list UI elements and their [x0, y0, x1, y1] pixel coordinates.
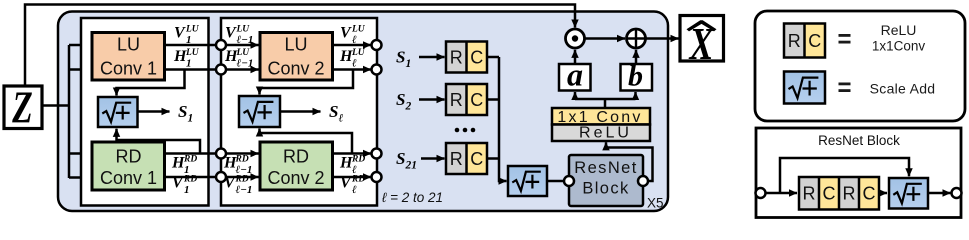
svg-text:C: C	[823, 184, 836, 204]
svg-text:S: S	[329, 102, 338, 121]
svg-text:1: 1	[184, 184, 190, 196]
svg-text:Z: Z	[11, 81, 32, 132]
svg-text:ℓ = 2 to 21: ℓ = 2 to 21	[382, 190, 443, 205]
svg-text:S: S	[396, 48, 405, 67]
svg-text:Scale Add: Scale Add	[870, 81, 936, 97]
svg-text:V: V	[174, 25, 186, 42]
svg-text:1: 1	[186, 34, 192, 46]
svg-text:V: V	[225, 25, 237, 42]
svg-text:R: R	[788, 31, 801, 51]
svg-text:Conv 2: Conv 2	[267, 168, 324, 188]
svg-text:ℓ: ℓ	[339, 112, 344, 124]
svg-text:C: C	[470, 149, 483, 169]
svg-text:V: V	[172, 175, 184, 192]
svg-text:H: H	[339, 155, 353, 172]
svg-text:b: b	[628, 60, 643, 93]
svg-text:Conv 2: Conv 2	[267, 59, 324, 79]
svg-text:LU: LU	[284, 35, 307, 55]
svg-text:C: C	[470, 47, 483, 67]
svg-text:C: C	[863, 184, 876, 204]
svg-text:R: R	[450, 90, 463, 110]
svg-text:ℓ−1: ℓ−1	[236, 184, 253, 196]
svg-text:2: 2	[405, 100, 412, 112]
svg-text:ReLU: ReLU	[579, 125, 632, 142]
svg-text:R: R	[450, 149, 463, 169]
svg-text:ResNet: ResNet	[574, 159, 637, 177]
svg-text:V: V	[340, 25, 352, 42]
svg-text:1x1Conv: 1x1Conv	[872, 39, 926, 54]
svg-text:1: 1	[188, 112, 194, 124]
svg-text:H: H	[173, 48, 187, 65]
svg-text:R: R	[843, 184, 856, 204]
svg-text:21: 21	[405, 159, 418, 171]
svg-text:Conv 1: Conv 1	[100, 59, 157, 79]
svg-text:C: C	[808, 31, 821, 51]
svg-text:Conv 1: Conv 1	[100, 168, 157, 188]
svg-text:ℓ: ℓ	[352, 34, 357, 46]
svg-text:ResNet Block: ResNet Block	[818, 133, 900, 148]
svg-text:H: H	[171, 155, 185, 172]
svg-text:ReLU: ReLU	[881, 22, 917, 38]
svg-text:R: R	[803, 184, 816, 204]
svg-text:ℓ−1: ℓ−1	[237, 34, 254, 46]
svg-text:V: V	[340, 175, 352, 192]
svg-text:C: C	[470, 90, 483, 110]
svg-text:X: X	[688, 18, 715, 69]
svg-text:ℓ: ℓ	[352, 184, 357, 196]
svg-text:S: S	[178, 102, 187, 121]
svg-text:H: H	[339, 48, 353, 65]
svg-text:1: 1	[406, 58, 412, 70]
svg-text:X5: X5	[647, 196, 664, 211]
svg-text:Block: Block	[582, 180, 629, 198]
svg-text:S: S	[396, 149, 405, 168]
svg-text:S: S	[396, 90, 405, 109]
svg-text:1: 1	[186, 57, 192, 69]
svg-text:1x1 Conv: 1x1 Conv	[557, 109, 642, 126]
svg-text:RD: RD	[283, 147, 309, 167]
svg-text:RD: RD	[116, 147, 142, 167]
svg-text:LU: LU	[117, 35, 140, 55]
svg-text:ℓ: ℓ	[352, 57, 357, 69]
svg-text:ℓ−1: ℓ−1	[237, 57, 254, 69]
svg-text:R: R	[450, 47, 463, 67]
